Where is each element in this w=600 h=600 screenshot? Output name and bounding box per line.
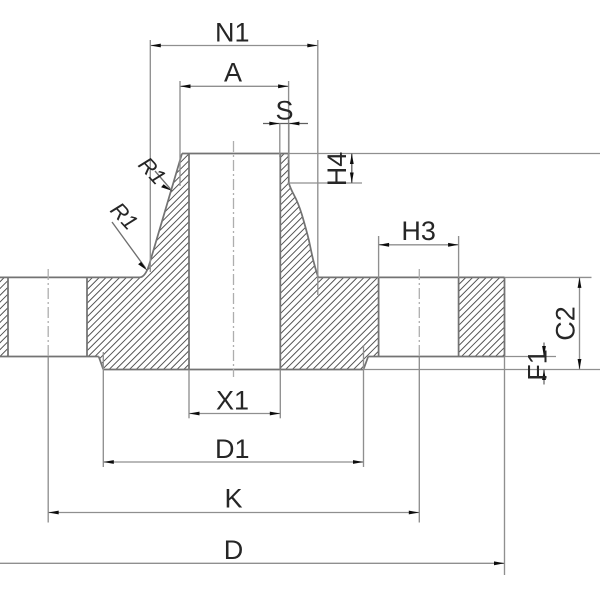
bore left wall (188, 154, 190, 370)
raised face bottom (103, 369, 363, 371)
dimension H3 extension lines (378, 236, 380, 278)
dimension H3 line (379, 244, 459, 246)
hatched metal section right of bolt hole (459, 277, 505, 356)
centerlines (48, 141, 419, 377)
raised face left bevel (99, 357, 104, 370)
svg-text:D: D (224, 535, 244, 565)
svg-text:S: S (275, 96, 293, 126)
flange top face left (0, 276, 140, 278)
dimension N1 extension lines (149, 40, 151, 272)
left bolt hole centerline (47, 269, 49, 357)
R1 lower leader arrow (138, 262, 147, 271)
dimension A extension lines (179, 81, 181, 186)
dimension C2 top extension (505, 276, 592, 278)
svg-text:D1: D1 (215, 434, 250, 464)
svg-text:N1: N1 (215, 18, 250, 48)
N1 arrows (150, 44, 161, 48)
dimension X1 line (189, 413, 280, 415)
main axis centerline (233, 141, 235, 377)
leader line R1 upper (155, 171, 170, 189)
svg-text:H4: H4 (322, 152, 352, 187)
dimension H4 line (351, 154, 353, 184)
svg-text:C2: C2 (550, 306, 580, 341)
dimension N1 line (150, 45, 317, 47)
dimension K extension lines (47, 357, 49, 523)
right hub flare (289, 154, 319, 278)
K arrows (48, 511, 59, 515)
dimension S bar and extensions (263, 123, 308, 125)
leader line R1 lower (112, 222, 146, 268)
H4 arrows (350, 154, 354, 165)
flange outer edge right (504, 277, 506, 356)
raised face bottom extension to right edge (364, 369, 600, 371)
dimension F1 line segments (543, 343, 545, 357)
dimension K line (48, 512, 419, 514)
flange top face right (318, 276, 504, 278)
left bolt hole walls (7, 277, 9, 356)
left hub taper with fillet (140, 154, 183, 278)
S arrows (outside) (269, 122, 280, 126)
dimension labels (215, 18, 580, 566)
flange back face right (368, 356, 504, 358)
X1 arrows (189, 412, 200, 416)
dimension F1 back face extension (505, 356, 557, 358)
A arrows (180, 84, 191, 88)
right bolt hole walls (378, 277, 380, 356)
dimension C2 line (579, 277, 581, 369)
svg-text:H3: H3 (401, 216, 436, 246)
svg-text:K: K (224, 484, 242, 514)
F1 arrows (outside) (542, 346, 546, 357)
dimension D1 line (103, 461, 363, 463)
hatched metal section left of bore (87, 154, 189, 370)
bore right wall (279, 154, 281, 370)
dimension D extension line (504, 357, 506, 576)
D1 arrows (103, 460, 114, 464)
dimension X1 extension lines (188, 370, 190, 419)
svg-text:A: A (224, 58, 242, 88)
C2 arrows (578, 277, 582, 288)
svg-text:F1: F1 (523, 349, 553, 381)
arrowheads (48, 44, 581, 566)
svg-text:X1: X1 (216, 386, 249, 416)
dimension D line (0, 562, 505, 564)
H3 arrows (379, 243, 390, 247)
dimension H4 reference line (288, 182, 363, 184)
dimension D1 extension lines (102, 352, 104, 467)
raised face right bevel (364, 357, 369, 370)
neck top face (182, 153, 289, 155)
top face extension line to right edge (289, 153, 600, 155)
D arrow (494, 561, 505, 565)
flange back face left (0, 356, 99, 358)
hatched metal sliver at left image edge (0, 277, 8, 356)
dimension A line (180, 85, 289, 87)
right bolt hole centerline (418, 269, 420, 357)
R1 upper leader arrow (161, 184, 172, 191)
hatched metal section right of bore (280, 154, 378, 370)
